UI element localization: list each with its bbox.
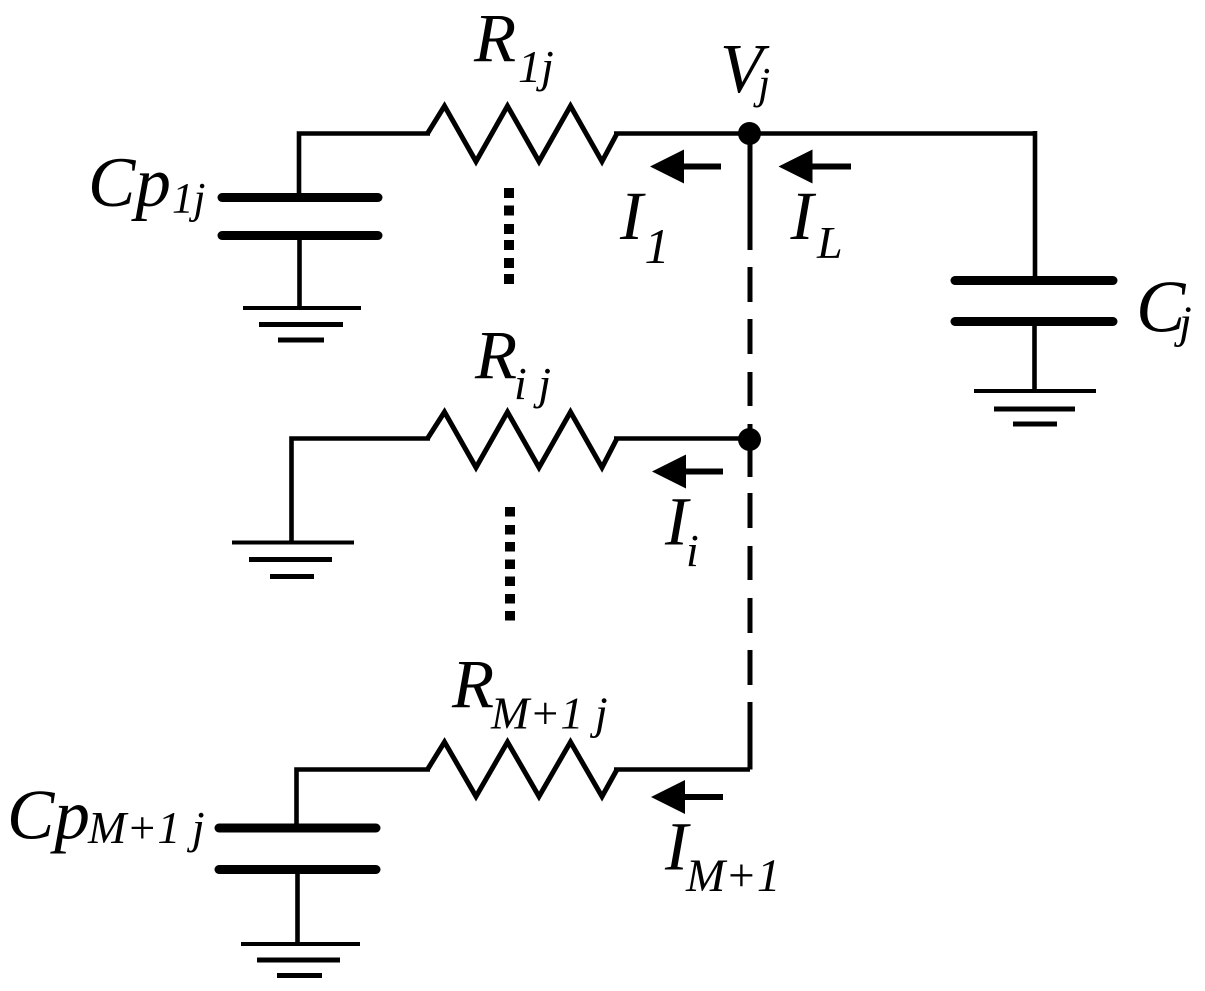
svg-text:1: 1: [645, 218, 670, 274]
svg-text:i j: i j: [514, 358, 551, 409]
svg-text:Cp: Cp: [7, 777, 90, 855]
svg-text:I: I: [619, 178, 646, 254]
svg-text:1j: 1j: [172, 176, 205, 223]
svg-text:L: L: [816, 217, 843, 268]
svg-text:M+1 j: M+1 j: [490, 688, 608, 739]
svg-text:M+1: M+1: [685, 850, 780, 902]
svg-text:R: R: [473, 1, 516, 77]
svg-text:R: R: [451, 647, 494, 723]
svg-text:i: i: [686, 525, 699, 576]
svg-text:1j: 1j: [518, 41, 554, 92]
svg-text:I: I: [790, 178, 817, 254]
svg-text:R: R: [474, 318, 517, 394]
svg-text:Cp: Cp: [88, 144, 171, 222]
svg-text:M+1 j: M+1 j: [87, 802, 205, 853]
